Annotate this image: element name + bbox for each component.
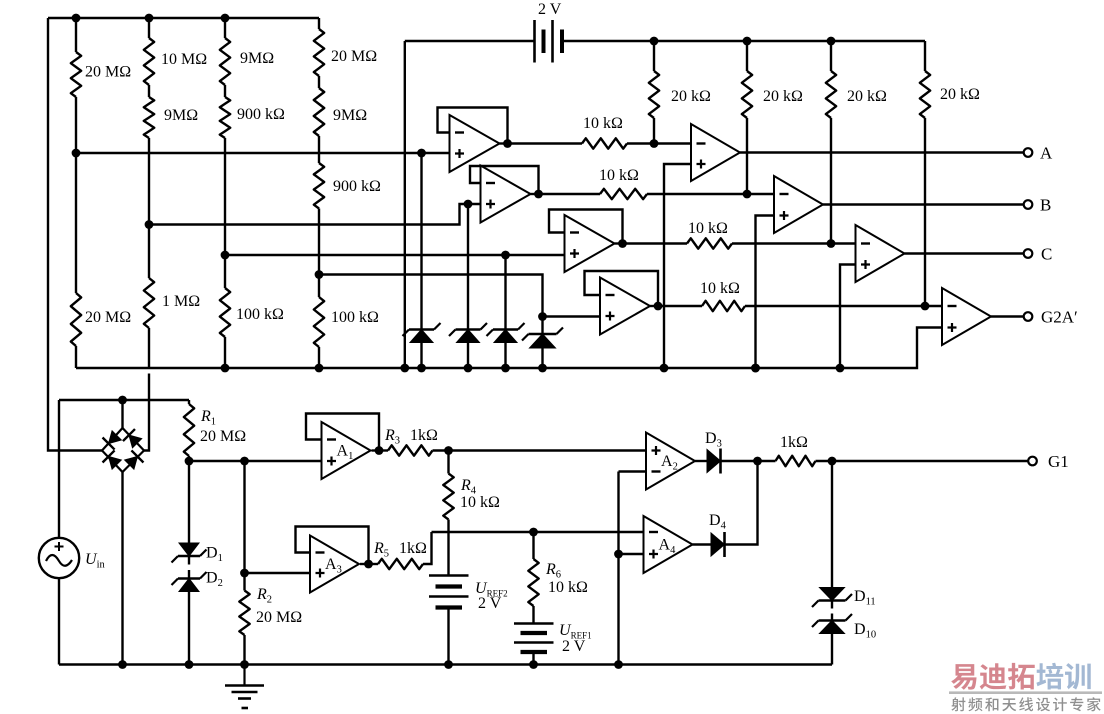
- junction 20k col c: [827, 37, 836, 46]
- junction bus D2: [185, 660, 194, 669]
- zener D2: [172, 572, 207, 592]
- junction bridge top node: [118, 396, 127, 405]
- junction A1 output: [375, 446, 384, 455]
- wire col2 c: [148, 138, 150, 278]
- op-amp A3: [310, 536, 359, 593]
- junction top col3: [221, 14, 230, 23]
- wire col4 b: [318, 76, 320, 88]
- junction 20k col b: [743, 37, 752, 46]
- resistor 900k col4: [314, 163, 324, 209]
- svg-text:2 V: 2 V: [478, 595, 502, 612]
- wire R1 top: [188, 400, 190, 404]
- junction A1 plus node: [240, 457, 249, 466]
- op-amp buffer B2 feedback: [470, 166, 539, 194]
- zener diode left2: [449, 323, 487, 343]
- wire rowB right: [647, 193, 774, 195]
- op-amp buffer B4 output wire: [650, 305, 658, 307]
- wire row4 right: [745, 305, 942, 307]
- junction line5 col4: [315, 270, 324, 279]
- terminal G2A: [1024, 312, 1033, 321]
- wire G1 out: [832, 460, 1028, 462]
- resistor 10k rowB: [600, 189, 647, 199]
- battery 2V: [535, 20, 563, 63]
- resistor 20M col4: [314, 29, 324, 76]
- wire D1 upper: [188, 461, 190, 544]
- resistor 20M lower-left: [71, 293, 81, 346]
- bridge diode bottom-left: [103, 450, 123, 470]
- wire col2 a: [148, 18, 150, 38]
- resistor 20k a: [649, 71, 659, 118]
- junction bus battery: [400, 364, 409, 373]
- op-amp A2: [646, 433, 695, 490]
- junction line3 col2: [145, 220, 154, 229]
- zener diode left1: [403, 323, 441, 343]
- junction bus R2: [240, 660, 249, 669]
- junction bus zener3: [501, 364, 510, 373]
- svg-text:20 MΩ: 20 MΩ: [85, 309, 131, 326]
- svg-text:20 kΩ: 20 kΩ: [940, 86, 980, 103]
- wire 20k c upper: [830, 41, 832, 71]
- resistor 9M col2: [144, 97, 154, 138]
- junction D3 node: [753, 457, 762, 466]
- svg-text:20 kΩ: 20 kΩ: [763, 88, 803, 105]
- op-amp comparator A: [691, 124, 740, 181]
- junction bus bridge: [118, 660, 127, 669]
- wire A2 minus riser: [619, 472, 647, 665]
- wire R1 bottom: [188, 456, 190, 461]
- wire D1-D2 link: [188, 556, 190, 579]
- wire R3 right: [433, 449, 647, 451]
- wire A3 out: [360, 563, 369, 565]
- wire col2 b: [148, 85, 150, 97]
- op-amp comparator C: [856, 225, 905, 282]
- junction bus ampC: [836, 364, 845, 373]
- svg-text:9MΩ: 9MΩ: [333, 107, 367, 124]
- svg-text:1kΩ: 1kΩ: [780, 434, 808, 451]
- op-amp buffer B3 output junction: [618, 239, 627, 248]
- wire battery right: [562, 40, 925, 42]
- wire 20k b upper: [746, 41, 748, 71]
- wire R2 lower: [243, 635, 245, 665]
- wire bottom bus: [59, 663, 832, 665]
- wire D11 upper: [831, 461, 833, 588]
- svg-text:B: B: [1040, 196, 1051, 215]
- svg-text:2 V: 2 V: [562, 638, 586, 655]
- wire uin riser: [58, 400, 60, 538]
- wire zener3 riser: [504, 255, 506, 330]
- wire 20k b lower: [746, 118, 748, 194]
- resistor R3: [388, 445, 433, 455]
- junction 20k col a: [650, 37, 659, 46]
- wire D4 up: [725, 461, 758, 545]
- op-amp buffer B1: [450, 115, 500, 172]
- resistor R1: [184, 404, 194, 456]
- wire zener4 riser: [541, 317, 543, 335]
- wire 20k d lower: [924, 118, 926, 306]
- svg-text:10 kΩ: 10 kΩ: [460, 494, 500, 511]
- wire bridge bottom riser: [121, 472, 123, 665]
- wire col2 to bridge: [144, 374, 149, 451]
- junction bus UREF2: [444, 660, 453, 669]
- wire battery neg riser: [404, 41, 406, 368]
- wire output C: [905, 252, 1024, 254]
- wire zener4 to buffer4 plus: [543, 315, 601, 317]
- svg-text:9MΩ: 9MΩ: [240, 50, 274, 67]
- terminal C: [1024, 249, 1033, 258]
- wire 20k c lower: [830, 118, 832, 244]
- wire R4 bottom: [447, 520, 449, 576]
- wire output B: [823, 203, 1024, 205]
- wire D11-D10 link: [831, 601, 833, 621]
- op-amp buffer B3 feedback: [549, 210, 623, 244]
- bridge rectifier: [102, 428, 144, 472]
- svg-text:9MΩ: 9MΩ: [164, 107, 198, 124]
- junction rowC 20k: [827, 239, 836, 248]
- wire UREF2 lower: [447, 610, 449, 665]
- wire 20k a lower: [653, 118, 655, 144]
- resistor 9M col3: [220, 38, 230, 85]
- wire col1 lower: [75, 346, 77, 368]
- svg-text:G2A′: G2A′: [1041, 308, 1078, 327]
- junction line3 zener2: [464, 200, 473, 209]
- wire col1 mid: [75, 97, 77, 293]
- junction bus UREF1: [529, 660, 538, 669]
- wire col4 d: [318, 209, 320, 298]
- wire A4 minus rail: [432, 531, 644, 533]
- junction bus zener4: [538, 364, 547, 373]
- resistor 10k rowC: [687, 238, 732, 248]
- wire A3 plus wire: [245, 572, 311, 574]
- junction bus2 zener1: [417, 149, 426, 158]
- junction bus col4: [315, 364, 324, 373]
- wire node R1 to A1: [189, 460, 322, 462]
- junction top col2: [145, 14, 154, 23]
- svg-text:900 kΩ: 900 kΩ: [237, 106, 285, 123]
- junction A4 plus node: [614, 550, 623, 559]
- wire col4 c: [318, 136, 320, 163]
- wire col3 b: [224, 85, 226, 97]
- wire A3 feedback: [296, 527, 369, 565]
- battery UREF2: [429, 576, 469, 608]
- resistor 100k col3: [220, 288, 230, 337]
- wire uin lower: [58, 578, 60, 664]
- junction line4 zener3: [501, 251, 510, 260]
- resistor 10M: [144, 38, 154, 85]
- wire A1 feedback: [306, 414, 379, 451]
- svg-text:1 MΩ: 1 MΩ: [162, 293, 200, 310]
- resistor 20k b: [742, 71, 752, 118]
- wire reference bus: [76, 328, 942, 369]
- wire zener3 lower: [504, 343, 506, 369]
- svg-text:2 V: 2 V: [538, 1, 562, 18]
- op-amp buffer B2 output wire: [531, 193, 539, 195]
- svg-text:900 kΩ: 900 kΩ: [333, 178, 381, 195]
- op-amp buffer B3 output wire: [615, 242, 623, 244]
- wire R2 col upper: [243, 461, 245, 591]
- wire rowC left: [623, 242, 688, 244]
- svg-text:1kΩ: 1kΩ: [410, 427, 438, 444]
- wire col3 a: [224, 18, 226, 38]
- resistor R6: [528, 559, 538, 606]
- wire rowC right: [732, 242, 856, 244]
- svg-text:10 kΩ: 10 kΩ: [599, 167, 639, 184]
- terminal A: [1024, 148, 1033, 157]
- zener D10: [812, 614, 852, 634]
- wire A4 plus wire: [619, 553, 644, 555]
- wire col4 a: [318, 18, 320, 29]
- terminal G1: [1028, 457, 1037, 466]
- junction G1 node: [828, 457, 837, 466]
- resistor 10k row4: [702, 301, 745, 311]
- zener diode left3: [487, 323, 525, 343]
- wire zener1 riser: [420, 153, 422, 330]
- svg-text:10 kΩ: 10 kΩ: [700, 280, 740, 297]
- junction row4 20k: [921, 302, 930, 311]
- wire D3 to node: [721, 460, 758, 462]
- watermark logo: [949, 663, 1102, 712]
- wire ampA plus riser: [664, 164, 691, 368]
- wire uin top link: [59, 399, 189, 401]
- junction bus A2riser: [614, 660, 623, 669]
- op-amp buffer B3: [565, 215, 615, 272]
- diode D3: [707, 449, 721, 474]
- terminal B: [1024, 200, 1033, 209]
- junction line4 col3: [221, 251, 230, 260]
- junction bus col3: [221, 364, 230, 373]
- svg-text:10 kΩ: 10 kΩ: [583, 115, 623, 132]
- bridge diode top-right: [123, 429, 143, 449]
- junction A3 plus node: [240, 569, 249, 578]
- op-amp buffer B1 output wire: [500, 142, 508, 144]
- wire ampB plus riser: [756, 216, 775, 369]
- wire rowB left: [539, 193, 601, 195]
- svg-text:G1: G1: [1048, 452, 1069, 471]
- wire zener2 riser: [467, 204, 469, 330]
- svg-text:A: A: [1040, 144, 1053, 163]
- op-amp comparator G2A: [942, 288, 991, 345]
- op-amp buffer B4 output junction: [654, 302, 663, 311]
- source Uin: [39, 538, 79, 578]
- op-amp A4: [644, 516, 693, 573]
- svg-text:10 kΩ: 10 kΩ: [688, 220, 728, 237]
- op-amp buffer B1 output junction: [503, 139, 512, 148]
- wire rowA left: [508, 142, 583, 144]
- svg-text:20 kΩ: 20 kΩ: [847, 88, 887, 105]
- svg-text:20 MΩ: 20 MΩ: [200, 428, 246, 445]
- wire top rail: [48, 17, 319, 19]
- wire bus2: [76, 152, 451, 154]
- op-amp buffer B4: [600, 278, 650, 335]
- wire left rail: [48, 18, 102, 451]
- svg-text:C: C: [1041, 245, 1052, 264]
- zener D1: [172, 543, 207, 563]
- svg-text:20 MΩ: 20 MΩ: [331, 48, 377, 65]
- op-amp A1: [322, 422, 371, 479]
- resistor R5: [378, 559, 423, 569]
- svg-text:20 MΩ: 20 MΩ: [85, 64, 131, 81]
- zener D11: [812, 588, 852, 608]
- junction R6 node: [529, 528, 538, 537]
- bridge diode top-left: [103, 429, 123, 449]
- wire col3 c: [224, 138, 226, 288]
- wire R4 top: [447, 451, 449, 474]
- svg-text:100 kΩ: 100 kΩ: [331, 309, 379, 326]
- svg-text:100 kΩ: 100 kΩ: [236, 306, 284, 323]
- wire 20k a upper: [653, 41, 655, 71]
- wire output G2A: [991, 315, 1024, 317]
- junction rowA 20k: [650, 139, 659, 148]
- resistor 10k rowA: [582, 138, 627, 148]
- wire A1 out: [372, 449, 380, 451]
- wire line4: [225, 254, 565, 256]
- wire UREF1 lower: [532, 654, 534, 665]
- svg-text:10 kΩ: 10 kΩ: [548, 579, 588, 596]
- svg-text:20 MΩ: 20 MΩ: [256, 609, 302, 626]
- wire line3: [149, 204, 481, 225]
- wire bridge top riser: [121, 400, 123, 428]
- op-amp buffer B2: [481, 166, 531, 223]
- resistor R2: [239, 591, 249, 636]
- op-amp buffer B4 feedback: [585, 271, 659, 306]
- ground: [225, 665, 264, 709]
- bridge diode bottom-right: [123, 450, 143, 470]
- wire zener1 lower: [420, 343, 422, 369]
- wire zener2 lower: [467, 343, 469, 369]
- wire col1 upper: [75, 18, 77, 52]
- resistor 100k col4: [314, 297, 324, 347]
- junction A3 output: [364, 560, 373, 569]
- junction R3 node: [444, 446, 453, 455]
- zener diode left4: [522, 328, 563, 349]
- op-amp comparator B: [774, 176, 823, 233]
- junction bus ampB2: [751, 364, 760, 373]
- junction bus ampA: [660, 364, 669, 373]
- op-amp buffer B2 output junction: [534, 190, 543, 199]
- junction top col1: [72, 14, 81, 23]
- resistor 900k col3: [220, 97, 230, 138]
- junction R1 node: [185, 457, 194, 466]
- junction bus2 col1: [72, 149, 81, 158]
- wire A4 out: [693, 543, 712, 545]
- resistor 1M: [144, 278, 154, 328]
- diode D4: [711, 532, 725, 557]
- wire row4 left: [658, 305, 702, 307]
- wire R6 bottom: [532, 606, 534, 623]
- wire A1out-R3: [379, 449, 388, 451]
- wire D3node-R: [758, 460, 776, 462]
- wire output A: [740, 151, 1024, 153]
- wire zener4 lower: [541, 348, 543, 368]
- wire battery left: [405, 40, 535, 42]
- wire col3 d: [224, 337, 226, 368]
- wire R-G1node: [816, 460, 833, 462]
- wire D2 lower: [188, 592, 190, 665]
- svg-text:1kΩ: 1kΩ: [399, 540, 427, 557]
- wire 20k d upper: [924, 41, 926, 71]
- junction bus zener1: [417, 364, 426, 373]
- resistor 20k c: [826, 71, 836, 118]
- battery UREF1: [514, 624, 554, 653]
- wire A3out-R5: [369, 563, 379, 565]
- wire col4 e: [318, 347, 320, 368]
- wire col2 d: [148, 328, 150, 368]
- resistor R4: [443, 474, 453, 520]
- junction zener4 node: [538, 312, 547, 321]
- junction rowB 20k: [743, 190, 752, 199]
- wire ampC plus riser: [840, 265, 856, 369]
- svg-text:20 kΩ: 20 kΩ: [671, 88, 711, 105]
- resistor 9M col4: [314, 88, 324, 136]
- wire A2 out: [695, 460, 707, 462]
- svg-text:10 MΩ: 10 MΩ: [161, 51, 207, 68]
- junction bus zener2: [464, 364, 473, 373]
- wire R5 to node: [423, 532, 432, 564]
- wire R6 top: [532, 532, 534, 559]
- junction bus ampB: [751, 364, 760, 373]
- wire rowA right: [627, 142, 691, 144]
- wire line5: [319, 275, 543, 317]
- op-amp buffer B1 feedback: [438, 108, 508, 144]
- resistor 1k out: [776, 456, 816, 466]
- wire D10 lower: [831, 634, 833, 665]
- resistor 20M upper-left: [71, 52, 81, 97]
- resistor 20k d: [920, 71, 930, 118]
